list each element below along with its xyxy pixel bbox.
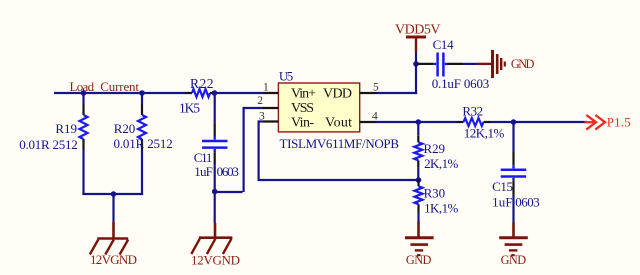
value 1uF 0603 (C11): [194, 164, 239, 179]
wire: R29 bottom stub: [417, 168, 419, 180]
svg-text:R29: R29: [424, 141, 446, 156]
junction: C15 top: [511, 119, 517, 125]
svg-text:0603: 0603: [217, 164, 239, 179]
label C14: [433, 37, 455, 52]
svg-text:VSS: VSS: [291, 101, 314, 116]
wire: R20 top vertical segment: [141, 93, 143, 105]
pin name Vin+: [291, 87, 316, 102]
svg-text:C15: C15: [492, 179, 513, 194]
svg-text:R22: R22: [190, 76, 214, 91]
resistor R29: [414, 142, 422, 160]
svg-text:0603: 0603: [515, 195, 540, 210]
ground 12VGND #1: [90, 222, 128, 255]
wire: VSS net horizontal from pin 2: [244, 107, 263, 109]
U5 pin 3 lead: [262, 120, 278, 122]
ground GND (below R30): [405, 222, 434, 256]
svg-text:Vin+: Vin+: [291, 87, 316, 102]
net label GND (R30): [406, 253, 432, 267]
wire: VDD net horizontal to pin 5: [377, 92, 418, 94]
wire: Vin- feedback horizontal to R29/R30 node: [258, 179, 419, 181]
svg-text:1uF: 1uF: [492, 195, 512, 210]
pin number 5: [373, 82, 379, 94]
pin name Vin-: [291, 116, 314, 131]
svg-text:4: 4: [372, 110, 378, 122]
svg-text:2: 2: [257, 95, 263, 107]
resistor R30 leads: [417, 180, 419, 213]
wire: Load Current net, R22 to pin 1 segment: [215, 92, 263, 94]
wire: C14 to GND: [463, 63, 478, 65]
wire: R19 bottom vertical segment: [82, 150, 84, 196]
svg-text:Vin-: Vin-: [291, 116, 314, 131]
U5 pin 2 lead: [262, 107, 278, 109]
value 0.1uF 0603: [432, 76, 490, 91]
svg-text:R19: R19: [55, 121, 77, 136]
svg-text:3: 3: [259, 111, 265, 123]
resistor R20: [138, 115, 146, 139]
wire: R19 top vertical segment: [82, 93, 84, 105]
resistor R22: [192, 89, 210, 97]
svg-text:R32: R32: [462, 103, 483, 118]
svg-text:12VGND: 12VGND: [191, 253, 240, 268]
junction: R20 top: [139, 90, 145, 96]
U5 pin 1 lead: [262, 92, 278, 94]
svg-text:C11: C11: [194, 150, 213, 165]
pin number 1: [263, 82, 269, 94]
resistor R19 leads: [82, 105, 84, 150]
label R29: [424, 141, 446, 156]
port P1.5 arrow: [585, 115, 606, 130]
pin name VSS: [291, 101, 314, 116]
wire: C15 to GND: [512, 196, 514, 224]
value 2K,1%: [424, 156, 458, 171]
svg-text:GND: GND: [511, 57, 535, 71]
resistor R20 leads: [141, 105, 143, 150]
junction: R29/R30 feedback node: [416, 177, 422, 183]
label C11: [194, 150, 213, 165]
wire: R32 to P1.5: [491, 121, 588, 123]
wire: VSS net horizontal to C11 junction: [215, 191, 243, 193]
resistor R32 leads: [457, 121, 491, 123]
svg-text:2K,1%: 2K,1%: [424, 156, 458, 171]
pin number 3: [259, 111, 265, 123]
op-amp U5 body: [278, 83, 359, 132]
wire: R29 top stub: [417, 122, 419, 136]
junction: C11 top at main wire: [212, 90, 218, 96]
value 1K,1%: [424, 200, 458, 215]
net label P1.5: [607, 114, 631, 129]
resistor R19: [80, 115, 88, 139]
value 1K5: [179, 101, 200, 116]
label R20: [114, 121, 136, 136]
value 12K,1%: [464, 125, 505, 140]
wire: C11 branch top: [214, 93, 216, 124]
U5 pin 4 lead: [360, 121, 377, 123]
wire: drop to 12VGND #1: [112, 194, 114, 223]
resistor R22 leads: [185, 92, 215, 94]
value 1uF 0603 (C15): [492, 195, 540, 210]
junction: C14 tap: [413, 61, 419, 67]
wire: Vin- stub from pin 3: [259, 120, 263, 122]
capacitor C15 leads: [512, 152, 514, 196]
svg-text:12VGND: 12VGND: [90, 252, 137, 267]
svg-text:C14: C14: [433, 37, 455, 52]
svg-text:P1.5: P1.5: [607, 114, 631, 129]
svg-text:R20: R20: [114, 121, 136, 136]
svg-text:12K,1%: 12K,1%: [464, 125, 505, 140]
net label GND (C15): [501, 253, 527, 267]
junction: bottom join: [111, 191, 117, 197]
ground GND (below C15): [499, 223, 528, 256]
value 0.01R 2512 (R20): [114, 136, 173, 151]
capacitor C11 leads: [214, 124, 216, 164]
pin number 4: [372, 110, 378, 122]
label R32: [462, 103, 483, 118]
capacitor C14: [434, 53, 448, 77]
resistor R29 leads: [417, 122, 419, 168]
ground 12VGND #2: [191, 223, 232, 254]
svg-text:0.1uF 0603: 0.1uF 0603: [432, 76, 490, 91]
resistor R32: [464, 118, 484, 126]
wire: Load Current net, left segment: [54, 92, 185, 94]
net label Load Current: [70, 79, 140, 94]
svg-text:1K,1%: 1K,1%: [424, 200, 458, 215]
svg-text:1uF: 1uF: [194, 164, 213, 179]
wire: R20 bottom vertical segment: [141, 150, 143, 196]
pin name VDD: [323, 87, 352, 102]
svg-text:1: 1: [263, 82, 269, 94]
wire: C15 branch: [512, 122, 514, 152]
wire: R30 to GND: [417, 213, 419, 223]
pin name Vout: [325, 116, 352, 131]
label R22: [190, 76, 214, 91]
part number TISLMV611MF/NOPB: [280, 136, 400, 151]
wire: Vin- feedback vertical: [258, 120, 260, 180]
label C15: [492, 179, 513, 194]
svg-text:U5: U5: [279, 68, 293, 83]
junction: R29 top: [416, 119, 422, 125]
label R19: [55, 121, 77, 136]
net label GND (C14): [511, 57, 535, 71]
wire: VSS net vertical: [243, 107, 245, 192]
wire: VDD net vertical: [415, 52, 417, 94]
ground GND (right of C14, sideways): [478, 50, 505, 78]
svg-text:GND: GND: [406, 253, 432, 267]
wire: C11 bottom to ground: [214, 164, 216, 223]
wire: Vout net pin4 to R32: [377, 121, 457, 123]
resistor R30: [415, 186, 423, 204]
svg-text:Vout: Vout: [325, 116, 352, 131]
capacitor C11: [202, 137, 228, 153]
power symbol VDD5V bar: [406, 37, 426, 52]
U5 pin 5 lead: [360, 92, 377, 94]
pin number 2: [257, 95, 263, 107]
capacitor C15: [501, 165, 527, 180]
net label 12VGND #2: [191, 253, 240, 268]
value 0.01R 2512 (R19): [19, 137, 77, 152]
svg-text:Current: Current: [100, 79, 139, 94]
wire: bottom join R19-R20 horizontal: [82, 193, 143, 195]
svg-text:TISLMV611MF/NOPB: TISLMV611MF/NOPB: [280, 136, 400, 151]
svg-text:VDD: VDD: [323, 87, 352, 102]
svg-text:5: 5: [373, 82, 379, 94]
designator U5: [279, 68, 293, 83]
junction: C11 bottom / VSS: [212, 189, 218, 195]
svg-text:GND: GND: [501, 253, 527, 267]
net label VDD5V: [395, 23, 441, 38]
junction: R19 top: [81, 90, 87, 96]
svg-text:VDD5V: VDD5V: [395, 23, 441, 38]
net label 12VGND #1: [90, 252, 137, 267]
svg-text:0.01R 2512: 0.01R 2512: [114, 136, 173, 151]
svg-text:R30: R30: [424, 185, 446, 200]
label R30: [424, 185, 446, 200]
svg-text:0.01R 2512: 0.01R 2512: [19, 137, 77, 152]
capacitor C14 leads: [417, 63, 463, 65]
svg-text:1K5: 1K5: [179, 101, 200, 116]
